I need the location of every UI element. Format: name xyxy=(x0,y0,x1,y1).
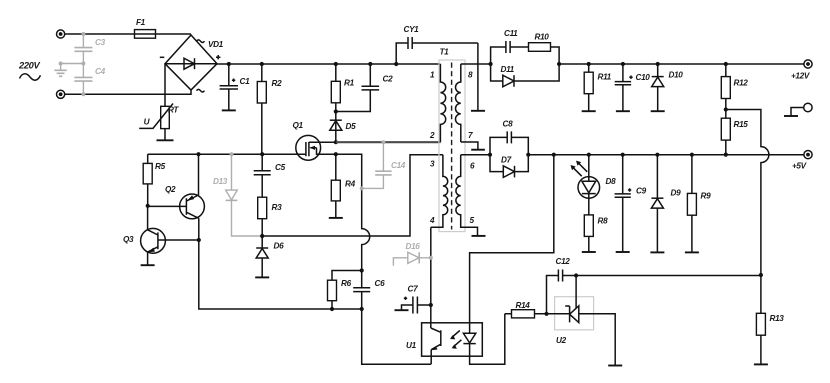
svg-text:C10: C10 xyxy=(636,73,651,82)
svg-text:R3: R3 xyxy=(272,203,283,212)
capacitor C3 (gray) xyxy=(74,32,105,64)
node C12-R13 xyxy=(759,273,763,277)
svg-text:R4: R4 xyxy=(345,180,356,189)
wire AC top right of fuse xyxy=(156,33,192,35)
diode D16 (gray) xyxy=(393,242,432,266)
svg-text:RT: RT xyxy=(168,106,179,115)
capacitor C1 xyxy=(220,62,250,111)
resistor R15 xyxy=(721,118,748,154)
svg-text:C11: C11 xyxy=(504,29,518,38)
ground C1 xyxy=(222,109,236,111)
svg-text:C12: C12 xyxy=(556,257,571,266)
transistor Q3 xyxy=(123,206,199,265)
fuse F1 xyxy=(135,18,156,38)
svg-text:C1: C1 xyxy=(240,77,251,86)
resistor R3 xyxy=(258,197,282,236)
wire C12 row to R13 xyxy=(576,275,761,277)
winding W4 pins 6-5 xyxy=(456,155,478,236)
resistor R13 xyxy=(756,275,784,364)
svg-text:D16: D16 xyxy=(406,242,421,251)
ground RT xyxy=(157,139,174,141)
svg-text:CY1: CY1 xyxy=(404,25,420,34)
svg-text:Q2: Q2 xyxy=(165,185,176,194)
optocoupler U1 xyxy=(406,314,505,365)
resistor R1 xyxy=(331,62,354,142)
node R12-R15 xyxy=(724,107,728,111)
capacitor C5 xyxy=(254,154,286,197)
capacitor C8 xyxy=(490,120,528,155)
wire drain to T1 pin2 xyxy=(336,141,441,143)
svg-text:R12: R12 xyxy=(734,79,749,88)
svg-text:Q1: Q1 xyxy=(293,121,304,130)
svg-text:C9: C9 xyxy=(636,187,647,196)
ground D6 xyxy=(255,276,269,278)
node R14-C12 xyxy=(544,312,548,316)
transistor Q2 xyxy=(148,154,205,240)
wire pin8 to D11 node xyxy=(461,63,491,65)
node C6 bottom xyxy=(360,307,364,311)
capacitor C14 (gray) xyxy=(360,140,406,190)
node Q2 collector on bus xyxy=(196,152,200,156)
node D11 right xyxy=(557,62,561,66)
node R6 bottom xyxy=(330,307,334,311)
svg-text:R6: R6 xyxy=(341,279,352,288)
svg-text:D8: D8 xyxy=(606,177,617,186)
node U1 anode tap xyxy=(552,153,556,157)
wire sense to U1 emitter xyxy=(362,309,431,364)
svg-text:D7: D7 xyxy=(501,156,512,165)
svg-text:R13: R13 xyxy=(770,314,785,323)
wire gate bus xyxy=(148,153,306,155)
svg-text:R9: R9 xyxy=(701,192,712,201)
wire +5V to U1 LED anode xyxy=(470,155,554,323)
capacitor C7 xyxy=(402,285,433,314)
mosfet Q1 xyxy=(293,121,336,160)
capacitor C4 (gray) xyxy=(74,62,105,97)
node R2-C5 on bus xyxy=(260,152,264,156)
diode D6 xyxy=(256,236,284,277)
label 220V xyxy=(18,61,41,81)
node D6 on pin3 row xyxy=(260,234,264,238)
capacitor C2 xyxy=(336,62,393,112)
node Q2-Q3 xyxy=(197,238,201,242)
terminal X1 top input xyxy=(57,30,65,38)
ground R4 xyxy=(329,217,343,219)
wire AC top xyxy=(65,33,135,35)
led D8 xyxy=(571,153,617,215)
svg-text:C14: C14 xyxy=(391,161,406,170)
ground pin5 xyxy=(472,235,486,237)
node C8 right xyxy=(526,153,530,157)
shunt regulator U2 xyxy=(547,276,616,366)
wire AC bottom xyxy=(65,90,191,94)
svg-text:2: 2 xyxy=(429,131,435,140)
svg-text:R1: R1 xyxy=(344,79,355,88)
diode D13 (gray) xyxy=(213,152,262,236)
svg-text:C4: C4 xyxy=(95,67,106,76)
ground pin7 xyxy=(471,149,485,151)
resistor R9 xyxy=(687,153,711,253)
svg-text:C6: C6 xyxy=(375,279,386,288)
wire pin7 to ground xyxy=(461,142,478,150)
winding W3 pins 3-4 xyxy=(431,155,448,228)
resistor R11 xyxy=(584,62,611,111)
diode D7 xyxy=(490,155,528,178)
ground C7 xyxy=(395,309,409,311)
svg-text:D6: D6 xyxy=(274,242,285,251)
svg-text:R5: R5 xyxy=(155,162,166,171)
diode D10 xyxy=(652,62,684,111)
node Q1 source xyxy=(334,152,338,156)
node R1-C2-D5 xyxy=(334,109,338,113)
capacitor C10 xyxy=(615,62,651,111)
svg-text:R2: R2 xyxy=(272,79,283,88)
capacitor C12 xyxy=(547,257,577,314)
ground Q3 xyxy=(141,264,155,266)
resistor R6 xyxy=(328,271,362,310)
svg-text:C5: C5 xyxy=(275,163,286,172)
svg-text:R15: R15 xyxy=(734,120,749,129)
resistor R2 xyxy=(257,62,282,154)
wire DC+ rail xyxy=(217,63,440,65)
connector chassis symbol xyxy=(784,103,812,116)
wire Q1 source to sense column with hop xyxy=(336,154,370,270)
terminal +12V xyxy=(791,60,812,81)
resistor R4 xyxy=(331,154,355,218)
resistor R8 xyxy=(584,215,608,252)
resistor R12 xyxy=(721,62,748,118)
ground U2 xyxy=(608,365,622,367)
capacitor C11 xyxy=(491,29,529,64)
svg-text:D11: D11 xyxy=(501,65,515,74)
node C8 left xyxy=(488,153,492,157)
node D11 left xyxy=(489,62,493,66)
svg-text:T1: T1 xyxy=(440,48,450,57)
capacitor C6 xyxy=(353,271,385,310)
bridge rectifier VD1 xyxy=(160,35,224,92)
svg-text:R14: R14 xyxy=(516,301,531,310)
svg-text:U2: U2 xyxy=(556,336,567,345)
ground C9 xyxy=(616,251,630,253)
transformer T1 xyxy=(439,48,465,232)
wire R12 node to R13 with hop xyxy=(726,110,769,276)
diode D11 xyxy=(491,64,559,87)
svg-text:4: 4 xyxy=(429,216,435,225)
winding W2 pins 8-7 xyxy=(455,64,460,142)
node R5-Q2 base xyxy=(146,204,150,208)
wire +12V rail xyxy=(559,63,804,65)
svg-text:D13: D13 xyxy=(213,177,228,186)
svg-text:D5: D5 xyxy=(346,122,357,131)
svg-text:Q3: Q3 xyxy=(123,235,134,244)
svg-text:220V: 220V xyxy=(18,61,40,71)
ground R9 xyxy=(685,251,699,253)
winding W1 pins 1-2 xyxy=(440,64,445,142)
svg-text:U1: U1 xyxy=(406,341,417,350)
svg-text:+12V: +12V xyxy=(791,72,811,81)
svg-text:R11: R11 xyxy=(598,73,612,82)
ground R13 xyxy=(754,363,768,365)
diode D5 xyxy=(330,120,356,131)
svg-text:F1: F1 xyxy=(136,18,146,27)
diode D9 xyxy=(651,153,681,253)
node C12 right xyxy=(574,273,578,277)
svg-text:VD1: VD1 xyxy=(208,40,224,49)
capacitor CY1 xyxy=(394,25,478,111)
earth ground (gray) xyxy=(54,62,83,77)
ground C10 xyxy=(616,110,630,112)
wire +5V rail xyxy=(528,154,804,156)
svg-text:C2: C2 xyxy=(383,75,394,84)
wire pin6 to C8 node xyxy=(461,154,490,156)
svg-text:C7: C7 xyxy=(408,285,419,294)
svg-text:R8: R8 xyxy=(598,217,609,226)
ground D10 xyxy=(651,110,665,112)
svg-text:R10: R10 xyxy=(535,33,550,42)
ground D9 xyxy=(650,251,664,253)
resistor R14 xyxy=(505,301,547,318)
node R15 bottom xyxy=(724,153,728,157)
node C6 top xyxy=(360,268,364,272)
node Q1 drain xyxy=(334,140,338,144)
terminal X2 bottom input xyxy=(57,90,65,98)
svg-text:D9: D9 xyxy=(671,189,682,198)
capacitor C9 xyxy=(615,153,647,252)
resistor R5 xyxy=(143,154,165,206)
svg-text:+5V: +5V xyxy=(792,162,808,171)
ground CY1 xyxy=(471,110,485,112)
svg-text:C3: C3 xyxy=(95,38,106,47)
resistor R10 xyxy=(529,33,560,65)
svg-text:D10: D10 xyxy=(669,71,684,80)
terminal +5V xyxy=(792,151,812,171)
wire pin4 column xyxy=(430,227,432,328)
svg-text:C8: C8 xyxy=(503,120,514,129)
wire Q2Q3 node down to R6 row xyxy=(199,240,362,309)
ground R11 xyxy=(582,110,596,112)
varistor RT xyxy=(139,64,179,141)
ground R8 xyxy=(582,251,596,253)
wire pin3 row xyxy=(262,155,443,236)
